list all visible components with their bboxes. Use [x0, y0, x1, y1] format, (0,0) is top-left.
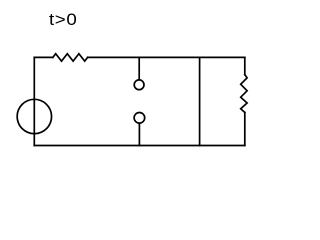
resistor R2 (right vertical) — [241, 75, 247, 113]
switch SW1 stem (top) — [138, 57, 140, 79]
source V1 (circle) — [17, 99, 51, 133]
label t>0 — [49, 10, 77, 30]
wire: bottom segment — [34, 145, 245, 147]
wire: middle vertical branch — [199, 57, 201, 145]
resistor R1 (top horizontal) — [53, 54, 88, 61]
switch SW1 terminal (lower circle) — [134, 113, 145, 124]
switch SW1 terminal (upper circle) — [134, 80, 144, 90]
wire: top-left segment — [34, 56, 53, 58]
switch SW1 stem (bottom) — [138, 124, 140, 146]
wire: top middle segment — [88, 56, 245, 58]
wire: right branch bottom — [244, 112, 246, 145]
wire: left branch (through source) — [33, 57, 35, 145]
wire: right branch top — [244, 57, 246, 74]
